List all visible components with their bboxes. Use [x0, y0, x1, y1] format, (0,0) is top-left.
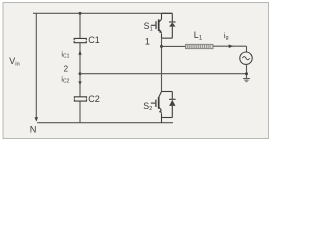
svg-text:C1: C1 — [88, 35, 100, 45]
current arrow ig — [229, 44, 234, 48]
wire: node 1 vertical (S1 emitter to S2 collector) — [161, 38, 163, 91]
junction: node 2 — [79, 72, 82, 75]
wire: bottom DC rail N — [37, 122, 173, 124]
wire: node 1 to inductor L1 — [162, 45, 186, 47]
svg-text:N: N — [30, 124, 37, 134]
voltage arrow Vin (left vertical with arrowhead) — [35, 14, 39, 122]
svg-text:2: 2 — [64, 64, 69, 73]
wire: midpoint line node 2 to grid neutral — [80, 73, 247, 75]
diode D1 (antiparallel with S1) — [162, 13, 176, 38]
wire: capacitor leg, rail to C1 — [79, 13, 81, 38]
wire: C2 to bottom rail — [79, 101, 81, 123]
inductor L1 — [186, 44, 214, 48]
switch S1 (IGBT) — [151, 13, 162, 38]
junction: node 1 / L1 branch — [160, 45, 163, 48]
switch S2 (IGBT) — [151, 92, 162, 123]
current arrow iC2 (down) — [78, 81, 81, 85]
wire: AC source to ground — [246, 64, 248, 78]
capacitor C2 — [74, 97, 86, 101]
current arrow iC1 (up) — [78, 50, 81, 54]
svg-text:C2: C2 — [88, 94, 100, 104]
wire: L1 to grid source — [213, 45, 247, 47]
wire: node 2 to C2 — [79, 74, 81, 97]
junction: grid neutral / ground — [245, 72, 248, 75]
capacitor C1 — [74, 38, 86, 42]
wire: top DC rail — [33, 12, 172, 14]
wire: down to AC source — [246, 46, 248, 52]
ground symbol — [243, 78, 250, 81]
AC source (grid) — [240, 52, 252, 64]
diode D2 (antiparallel with S2) — [162, 92, 176, 118]
wire: C1 to node 2 — [79, 43, 81, 74]
junction: top rail / capacitor leg — [79, 12, 82, 15]
svg-text:1: 1 — [145, 36, 150, 46]
